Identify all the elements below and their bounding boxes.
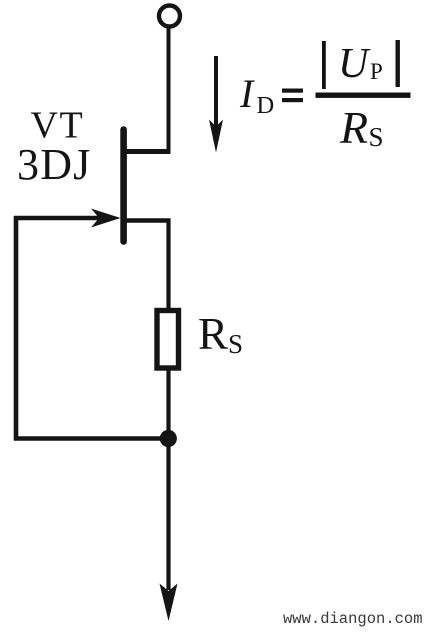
formula abs bar right bbox=[396, 40, 400, 87]
formula equals bbox=[282, 89, 303, 93]
node S junction bbox=[160, 430, 177, 447]
resistor RS bbox=[157, 311, 179, 369]
svg-text:3DJ: 3DJ bbox=[17, 140, 92, 189]
transistor VT gate arrowhead bbox=[91, 209, 121, 228]
formula fraction bar bbox=[316, 93, 411, 98]
svg-text:S: S bbox=[369, 122, 384, 152]
formula abs bar left bbox=[322, 41, 326, 89]
transistor VT source lead bbox=[121, 218, 171, 223]
svg-text:www.diangon.com: www.diangon.com bbox=[283, 610, 423, 628]
wire gate feedback vertical bbox=[14, 216, 19, 441]
current arrow ID shaft bbox=[214, 56, 218, 128]
wire output bbox=[166, 438, 170, 590]
transistor VT gate lead bbox=[14, 216, 112, 220]
wire resistor-to-node bbox=[166, 368, 170, 440]
wire source-to-resistor bbox=[166, 219, 170, 310]
svg-text:R: R bbox=[339, 102, 368, 153]
svg-text:RS: RS bbox=[198, 309, 243, 359]
terminal T1 bbox=[159, 6, 180, 27]
wire terminal-to-drain bbox=[167, 27, 171, 154]
svg-text:I: I bbox=[239, 71, 255, 116]
svg-text:P: P bbox=[370, 59, 383, 84]
wire bottom horizontal bbox=[14, 436, 168, 441]
svg-text:U: U bbox=[338, 41, 371, 87]
svg-text:D: D bbox=[257, 92, 275, 119]
output arrowhead bbox=[160, 584, 178, 622]
transistor VT drain lead bbox=[121, 149, 171, 154]
current arrow ID head bbox=[209, 120, 223, 153]
transistor VT channel bar bbox=[120, 130, 127, 242]
